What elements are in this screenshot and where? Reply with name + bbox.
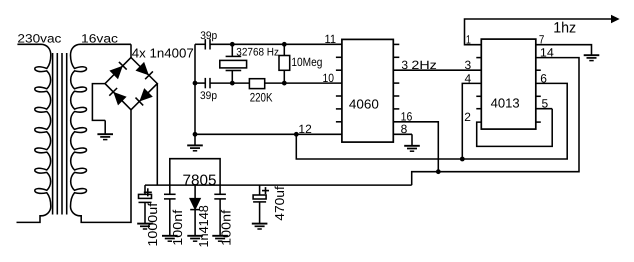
svg-text:230vac: 230vac (17, 32, 61, 46)
svg-text:12: 12 (298, 122, 312, 136)
svg-text:220K: 220K (250, 90, 273, 104)
svg-text:11: 11 (325, 32, 337, 46)
svg-text:4x 1n4007: 4x 1n4007 (132, 45, 194, 60)
svg-text:2: 2 (464, 110, 471, 124)
svg-text:10: 10 (323, 71, 335, 85)
svg-text:2Hz: 2Hz (411, 58, 436, 72)
svg-text:10Meg: 10Meg (291, 55, 322, 69)
svg-text:39p: 39p (200, 90, 217, 102)
svg-text:5: 5 (542, 97, 549, 111)
svg-text:1: 1 (466, 33, 471, 47)
svg-text:100nf: 100nf (170, 209, 185, 245)
svg-text:4060: 4060 (349, 96, 379, 111)
svg-text:1000uf: 1000uf (145, 202, 160, 246)
svg-text:100nf: 100nf (219, 209, 234, 245)
svg-text:32768 Hz: 32768 Hz (236, 47, 279, 59)
svg-text:8: 8 (401, 122, 408, 136)
svg-text:16vac: 16vac (81, 32, 118, 46)
svg-text:39p: 39p (200, 30, 217, 42)
svg-text:3: 3 (465, 58, 472, 72)
svg-text:4013: 4013 (491, 96, 520, 111)
svg-text:7805: 7805 (183, 172, 217, 189)
svg-text:4: 4 (465, 71, 472, 85)
svg-text:6: 6 (540, 71, 547, 85)
svg-text:14: 14 (540, 45, 554, 59)
svg-text:1n4148: 1n4148 (196, 205, 211, 247)
svg-text:470uf: 470uf (272, 186, 287, 221)
svg-text:7: 7 (539, 33, 545, 47)
svg-text:3: 3 (401, 58, 408, 72)
svg-text:1hz: 1hz (553, 19, 576, 36)
